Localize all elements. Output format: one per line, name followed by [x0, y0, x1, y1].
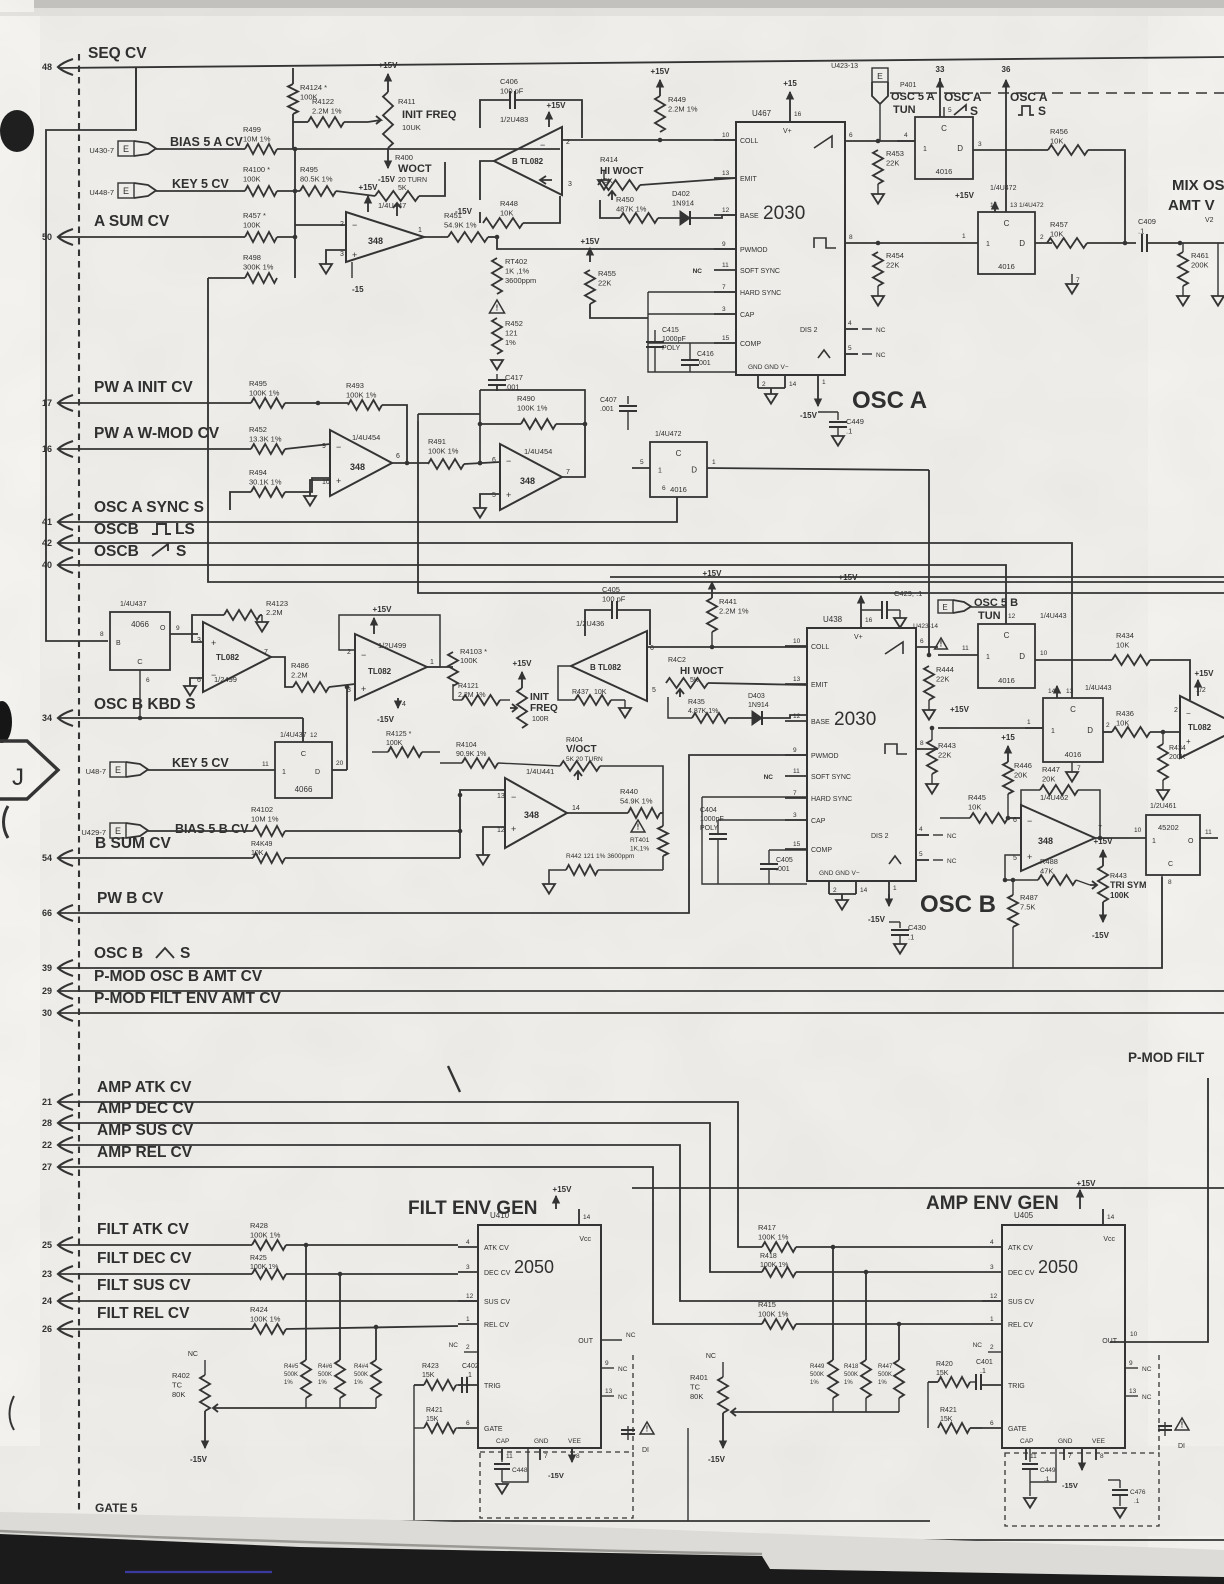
ground U483 — [603, 170, 605, 180]
wire aux long — [632, 1187, 1224, 1189]
svg-text:6: 6 — [650, 645, 654, 652]
svg-text:3: 3 — [990, 1264, 994, 1271]
svg-text:500K: 500K — [284, 1372, 298, 1378]
svg-text:5K: 5K — [604, 178, 613, 185]
svg-text:+15V: +15V — [513, 659, 533, 668]
left dashed bus line — [78, 54, 80, 1523]
wire OSCB saw S — [58, 565, 1006, 624]
svg-text:1/4U443: 1/4U443 — [1040, 613, 1067, 620]
svg-text:3: 3 — [340, 251, 344, 258]
svg-text:10K: 10K — [594, 689, 607, 696]
IC U405 2050 AMP — [1002, 1225, 1125, 1448]
svg-text:12: 12 — [1008, 613, 1016, 620]
svg-text:NC: NC — [876, 352, 886, 359]
svg-text:1: 1 — [430, 659, 434, 666]
pot R414 HI WOCT — [598, 180, 640, 190]
svg-text:4016: 4016 — [670, 485, 687, 494]
wire R452 gnd — [491, 360, 503, 370]
svg-text:R421: R421 — [940, 1407, 957, 1414]
svg-text:1/4U447: 1/4U447 — [378, 201, 406, 210]
svg-text:11: 11 — [506, 1453, 513, 1460]
wire bottom right — [774, 1539, 1224, 1541]
svg-text:KEY 5 CV: KEY 5 CV — [172, 756, 229, 770]
svg-text:OSCB: OSCB — [94, 543, 139, 560]
svg-text:20K: 20K — [1042, 775, 1055, 784]
svg-text:6: 6 — [396, 453, 400, 460]
svg-text:200K: 200K — [1191, 261, 1209, 270]
svg-text:SOFT SYNC: SOFT SYNC — [811, 774, 851, 781]
svg-text:HARD SYNC: HARD SYNC — [740, 290, 781, 297]
svg-text:66: 66 — [42, 908, 52, 918]
svg-text:+: + — [211, 638, 216, 648]
op-amp U483 — [494, 127, 562, 195]
svg-text:R461: R461 — [1191, 251, 1209, 260]
pot R411 INIT FREQ — [383, 92, 393, 148]
node AMP SUS CV entry arrow 22 — [58, 1137, 73, 1153]
svg-text:D: D — [1019, 652, 1025, 661]
svg-text:54.9K 1%: 54.9K 1% — [620, 797, 653, 806]
svg-text:U405: U405 — [1014, 1211, 1034, 1220]
wire U443a out — [1052, 659, 1112, 661]
wire C409 out — [1147, 242, 1224, 244]
svg-text:P-MOD OSC B AMT CV: P-MOD OSC B AMT CV — [94, 968, 263, 985]
svg-text:J: J — [12, 764, 24, 791]
svg-text:10: 10 — [722, 132, 730, 139]
resistor R457a — [245, 232, 277, 242]
svg-text:PWMOD: PWMOD — [811, 753, 839, 760]
thermistor RT402 — [492, 258, 502, 294]
node AMP ATK CV entry arrow 21 — [58, 1094, 73, 1110]
resistor R461 — [1178, 252, 1188, 286]
svg-text:12: 12 — [793, 713, 801, 720]
wire R448 ends — [479, 212, 481, 223]
svg-text:!: ! — [646, 1425, 649, 1434]
wire 33 to sw — [939, 80, 941, 117]
wire R415 out — [796, 1323, 982, 1325]
svg-text:29: 29 — [42, 986, 52, 996]
node OSCB entry arrow 42 — [58, 535, 73, 551]
svg-text:!: ! — [637, 823, 640, 832]
svg-text:R4102: R4102 — [251, 805, 273, 814]
ground U441 — [483, 827, 505, 855]
svg-text:S: S — [970, 104, 978, 118]
svg-text:FILT REL CV: FILT REL CV — [97, 1305, 190, 1322]
scan mark left paren — [4, 806, 9, 838]
svg-text:100R: 100R — [532, 716, 549, 723]
resistor R495a — [300, 186, 336, 196]
wire PW A INIT CV — [58, 402, 251, 404]
svg-text:.1: .1 — [466, 1372, 472, 1379]
svg-text:R418: R418 — [844, 1364, 859, 1370]
svg-text:R437: R437 — [572, 689, 589, 696]
svg-text:10K: 10K — [1050, 137, 1063, 146]
resistor R449b 500K — [832, 1247, 834, 1360]
svg-text:1: 1 — [893, 885, 897, 892]
svg-text:TC: TC — [690, 1383, 701, 1392]
svg-text:P401: P401 — [900, 82, 916, 89]
resistor R4100 — [245, 186, 277, 196]
svg-text:15: 15 — [722, 335, 730, 342]
wire FILT DEC CV — [58, 1273, 252, 1275]
svg-text:13.3K 1%: 13.3K 1% — [249, 435, 282, 444]
wire PW A W-MOD CV — [58, 448, 251, 450]
svg-text:22: 22 — [42, 1140, 52, 1150]
svg-text:1: 1 — [418, 227, 422, 234]
svg-text:1%: 1% — [284, 1380, 293, 1386]
IC U438 2030 OSC B — [807, 628, 916, 881]
svg-text:500K: 500K — [810, 1372, 824, 1378]
svg-text:22K: 22K — [886, 159, 899, 168]
wire R440 out — [660, 812, 663, 814]
svg-text:C415: C415 — [662, 327, 679, 334]
op-amp U454b — [500, 444, 562, 510]
node OSC B entry arrow 39 — [58, 960, 73, 976]
svg-text:R453: R453 — [886, 149, 904, 158]
capacitor C448 — [501, 1448, 503, 1462]
svg-text:C449: C449 — [1040, 1467, 1056, 1474]
wire OSCB pulse LS — [58, 543, 1072, 698]
svg-text:13 1/4U472: 13 1/4U472 — [1010, 202, 1044, 209]
wire R421a loop — [413, 1385, 415, 1428]
svg-text:+15V: +15V — [1195, 669, 1215, 678]
wire C449 tap — [818, 411, 838, 413]
svg-text:5K: 5K — [690, 677, 699, 684]
wire AMP DEC CV — [58, 1123, 762, 1272]
svg-text:1/4U441: 1/4U441 — [526, 767, 554, 776]
svg-text:U48-7: U48-7 — [86, 767, 106, 776]
svg-text:U429-7: U429-7 — [81, 828, 106, 837]
svg-text:2.2M 1%: 2.2M 1% — [312, 107, 342, 116]
wire SEQ CV — [58, 57, 1224, 68]
svg-text:48: 48 — [42, 62, 52, 72]
svg-text:1K ,1%: 1K ,1% — [505, 267, 530, 276]
svg-text:100K 1%: 100K 1% — [758, 1310, 789, 1319]
svg-text:1/2U436: 1/2U436 — [576, 619, 604, 628]
resistor R423 — [424, 1380, 456, 1390]
svg-text:−: − — [336, 442, 341, 452]
svg-text:NC: NC — [947, 858, 957, 865]
svg-text:-15: -15 — [352, 285, 364, 294]
svg-text:DI: DI — [642, 1447, 649, 1454]
svg-text:121: 121 — [505, 329, 518, 338]
svg-text:FILT ATK CV: FILT ATK CV — [97, 1221, 189, 1238]
svg-text:DEC CV: DEC CV — [1008, 1270, 1035, 1277]
wire P-MOD FILT ENV AMT CV — [58, 1012, 1224, 1014]
capacitor C405b — [760, 863, 778, 865]
svg-text:SUS CV: SUS CV — [484, 1299, 510, 1306]
svg-text:NC: NC — [973, 1342, 983, 1349]
svg-text:20: 20 — [336, 760, 344, 767]
pot R4105 INIT FREQ — [517, 688, 527, 728]
wire sum to opamp — [277, 236, 296, 238]
svg-text:DIS 2: DIS 2 — [800, 327, 818, 334]
pot R401 TC — [722, 1362, 724, 1377]
svg-text:15: 15 — [793, 841, 801, 848]
svg-text:10: 10 — [1130, 1331, 1138, 1338]
svg-text:+15V: +15V — [547, 101, 567, 110]
wire R490 loop — [480, 423, 521, 425]
svg-text:R4123: R4123 — [266, 599, 288, 608]
svg-text:23: 23 — [42, 1269, 52, 1279]
svg-text:100K 1%: 100K 1% — [249, 389, 280, 398]
wire KEY5 B — [148, 769, 257, 771]
svg-text:TRIG: TRIG — [484, 1383, 501, 1390]
wire U499a out — [271, 657, 293, 687]
wire U447 out — [424, 236, 448, 238]
power U447 — [367, 196, 369, 212]
wire AMP OUT — [1124, 1340, 1126, 1342]
resistor R441b — [707, 598, 717, 632]
svg-text:REL CV: REL CV — [1008, 1322, 1033, 1329]
IC U410 2050 FILT — [478, 1225, 601, 1448]
pot R402 TC — [204, 1360, 206, 1375]
svg-text:S: S — [1038, 104, 1046, 118]
wire BIAS5B out — [285, 830, 460, 832]
svg-text:1/4U443: 1/4U443 — [1085, 685, 1112, 692]
svg-text:1: 1 — [712, 459, 716, 466]
svg-text:10K: 10K — [968, 803, 981, 812]
resistor R491 — [428, 459, 464, 469]
resistor R419 500K — [865, 1272, 867, 1360]
svg-text:−: − — [511, 792, 516, 802]
svg-text:GND: GND — [534, 1438, 549, 1445]
svg-text:C407: C407 — [600, 397, 617, 404]
svg-text:100K 1%: 100K 1% — [250, 1315, 281, 1324]
svg-text:7: 7 — [1076, 277, 1080, 284]
svg-text:V+: V+ — [854, 634, 863, 641]
svg-text:GATE 5: GATE 5 — [95, 1501, 138, 1515]
connector J chevron — [0, 741, 58, 799]
svg-text:R491: R491 — [428, 437, 446, 446]
svg-text:15K: 15K — [422, 1372, 435, 1379]
svg-text:100K 1%: 100K 1% — [428, 447, 459, 456]
svg-text:OSC B: OSC B — [94, 945, 143, 962]
resistor R450 — [620, 213, 658, 223]
node 36 arrow — [1005, 80, 1007, 212]
svg-text:D403: D403 — [748, 693, 765, 700]
svg-text:+15V: +15V — [1094, 837, 1114, 846]
svg-text:20K: 20K — [1014, 771, 1027, 780]
svg-text:100K 1%: 100K 1% — [517, 404, 548, 413]
resistor R443 — [927, 740, 937, 774]
svg-text:INIT FREQ: INIT FREQ — [402, 109, 457, 121]
svg-text:6: 6 — [492, 457, 496, 464]
svg-text:10: 10 — [793, 638, 801, 645]
svg-text:KEY 5 CV: KEY 5 CV — [172, 177, 229, 191]
svg-text:-15V: -15V — [548, 1471, 564, 1480]
svg-text:+15V: +15V — [379, 61, 399, 70]
svg-text:4: 4 — [990, 1239, 994, 1246]
svg-text:C: C — [301, 749, 307, 758]
capacitor C429 — [881, 601, 883, 619]
resistor R436 — [1112, 727, 1150, 737]
svg-text:P-MOD FILT ENV AMT CV: P-MOD FILT ENV AMT CV — [94, 990, 282, 1007]
resistor R4103b — [253, 853, 285, 863]
svg-text:FILT DEC CV: FILT DEC CV — [97, 1250, 192, 1267]
svg-text:R425: R425 — [250, 1255, 267, 1262]
svg-text:NC: NC — [626, 1332, 636, 1339]
wire B SUM CV — [58, 857, 253, 859]
paper shading right margin — [1148, 0, 1224, 1584]
resistor R4125 — [388, 747, 422, 757]
resistor R442 — [566, 865, 598, 875]
svg-text:PW A W-MOD CV: PW A W-MOD CV — [94, 425, 220, 442]
svg-text:C448: C448 — [512, 1467, 528, 1474]
svg-text:CAP: CAP — [811, 818, 826, 825]
svg-text:90.9K 1%: 90.9K 1% — [456, 751, 486, 758]
svg-text:CAP: CAP — [740, 312, 755, 319]
svg-text:D: D — [691, 466, 697, 475]
resistor R434 — [1112, 655, 1150, 665]
svg-text:E: E — [942, 603, 947, 612]
svg-text:GATE: GATE — [484, 1426, 503, 1433]
wire bus lower — [418, 421, 1224, 593]
svg-text:NC: NC — [876, 327, 886, 334]
wire R456 corner — [1088, 150, 1125, 243]
wire R424 out — [286, 1326, 458, 1329]
svg-text:R4K49: R4K49 — [251, 841, 273, 848]
dashed col AMP — [1158, 1355, 1160, 1453]
wire A SUM CV — [58, 236, 245, 238]
svg-text:D: D — [315, 769, 320, 776]
svg-text:300K 1%: 300K 1% — [243, 263, 274, 272]
svg-text:+: + — [352, 250, 357, 260]
capacitor C409 — [1141, 234, 1143, 252]
wire AMP ATK CV — [58, 1102, 762, 1247]
svg-text:4: 4 — [919, 826, 923, 833]
svg-text:COMP: COMP — [811, 847, 832, 854]
svg-text:R446: R446 — [1014, 761, 1032, 770]
resistor R4x6 500K b — [339, 1274, 341, 1360]
resistor R486 — [293, 682, 329, 692]
svg-text:R448: R448 — [500, 199, 518, 208]
resistor R452 — [492, 318, 502, 354]
svg-text:-15V: -15V — [708, 1455, 726, 1464]
svg-text:OSC B: OSC B — [920, 891, 996, 918]
svg-text:10K: 10K — [251, 850, 264, 857]
svg-text:HARD SYNC: HARD SYNC — [811, 796, 852, 803]
svg-text:C: C — [1070, 705, 1076, 714]
stray pen mark — [448, 1066, 460, 1092]
svg-text:NC: NC — [618, 1366, 628, 1373]
resistor R444 — [924, 666, 934, 700]
resistor R457b — [1047, 238, 1087, 248]
resistor R415 — [762, 1319, 796, 1329]
svg-text:−: − — [361, 650, 366, 660]
wire R418 out — [796, 1271, 982, 1273]
svg-text:50: 50 — [42, 232, 52, 242]
svg-text:6: 6 — [990, 1420, 994, 1427]
wire OSC A SYNC S — [58, 497, 677, 522]
svg-text:4: 4 — [402, 701, 406, 708]
svg-text:MIX OS: MIX OS — [1172, 177, 1224, 194]
svg-text:R434: R434 — [1116, 631, 1134, 640]
wire U499b out — [427, 666, 453, 668]
svg-text:C: C — [1004, 219, 1010, 228]
svg-text:REL CV: REL CV — [484, 1322, 509, 1329]
wire U483 out — [480, 161, 494, 200]
resistor R425 — [252, 1269, 286, 1279]
svg-text:R450: R450 — [616, 195, 634, 204]
svg-text:DEC CV: DEC CV — [484, 1270, 511, 1277]
svg-text:-15V: -15V — [378, 175, 396, 184]
wire bus upper — [610, 576, 1224, 578]
svg-text:1%: 1% — [810, 1380, 819, 1386]
svg-text:FREQ: FREQ — [530, 703, 558, 714]
svg-text:2.2M 1%: 2.2M 1% — [719, 607, 749, 616]
capacitor C449 — [837, 412, 839, 420]
svg-text:80.5K 1%: 80.5K 1% — [300, 175, 333, 184]
svg-text:1: 1 — [658, 468, 662, 475]
svg-text:4066: 4066 — [131, 620, 149, 629]
svg-text:348: 348 — [524, 810, 539, 820]
svg-text:9: 9 — [1129, 1360, 1133, 1367]
resistor R448 — [483, 218, 523, 228]
wire bus mid — [208, 278, 1224, 582]
svg-text:2: 2 — [340, 221, 344, 228]
svg-text:11: 11 — [1030, 1453, 1037, 1460]
svg-text:R495: R495 — [300, 165, 318, 174]
wire gate bus — [88, 1518, 310, 1521]
svg-text:1: 1 — [1051, 728, 1055, 735]
svg-text:R415: R415 — [758, 1300, 776, 1309]
svg-text:O: O — [1188, 838, 1194, 845]
svg-text:.001: .001 — [776, 866, 790, 873]
svg-text:+15: +15 — [1001, 733, 1015, 742]
blue mark — [125, 1571, 272, 1573]
svg-text:16: 16 — [865, 617, 873, 624]
svg-text:C429, .1: C429, .1 — [894, 589, 922, 598]
svg-text:+15V: +15V — [581, 237, 601, 246]
op-amp U499b — [355, 634, 427, 700]
svg-text:8: 8 — [1100, 1453, 1104, 1460]
svg-text:13: 13 — [497, 793, 505, 800]
node AMP REL CV entry arrow 27 — [58, 1159, 73, 1175]
svg-text:.001: .001 — [600, 406, 614, 413]
resistor R454 — [873, 252, 883, 286]
svg-text:100K 1%: 100K 1% — [346, 391, 377, 400]
svg-text:S: S — [176, 543, 186, 560]
svg-text:V+: V+ — [783, 128, 792, 135]
svg-text:.1: .1 — [1138, 227, 1144, 236]
node PW A W-MOD CV entry arrow 16 — [58, 441, 73, 457]
svg-text:DI: DI — [1178, 1443, 1185, 1450]
scan blob top left — [0, 110, 34, 152]
svg-text:VEE: VEE — [1092, 1438, 1106, 1445]
svg-text:6: 6 — [849, 132, 853, 139]
svg-text:OSC B KBD S: OSC B KBD S — [94, 696, 196, 713]
svg-text:1%: 1% — [505, 338, 516, 347]
svg-text:10K: 10K — [1050, 230, 1063, 239]
wire R455 dn — [590, 304, 648, 318]
node FILT SUS CV entry arrow 24 — [58, 1293, 73, 1309]
svg-text:R447: R447 — [1042, 765, 1060, 774]
svg-text:8: 8 — [920, 740, 924, 747]
svg-text:+15V: +15V — [553, 1185, 573, 1194]
svg-text:NC: NC — [618, 1394, 628, 1401]
svg-text:2: 2 — [1174, 707, 1178, 714]
svg-text:1/2U461: 1/2U461 — [1150, 803, 1177, 810]
node FILT REL CV entry arrow 26 — [58, 1321, 73, 1337]
svg-text:+15: +15 — [783, 79, 797, 88]
svg-text:PW B CV: PW B CV — [97, 890, 164, 907]
resistor R421b — [938, 1423, 970, 1433]
svg-text:10K: 10K — [500, 209, 513, 218]
svg-text:R443: R443 — [938, 741, 956, 750]
svg-text:13: 13 — [605, 1388, 613, 1395]
svg-text:ATK CV: ATK CV — [484, 1245, 509, 1252]
svg-text:5: 5 — [492, 492, 496, 499]
